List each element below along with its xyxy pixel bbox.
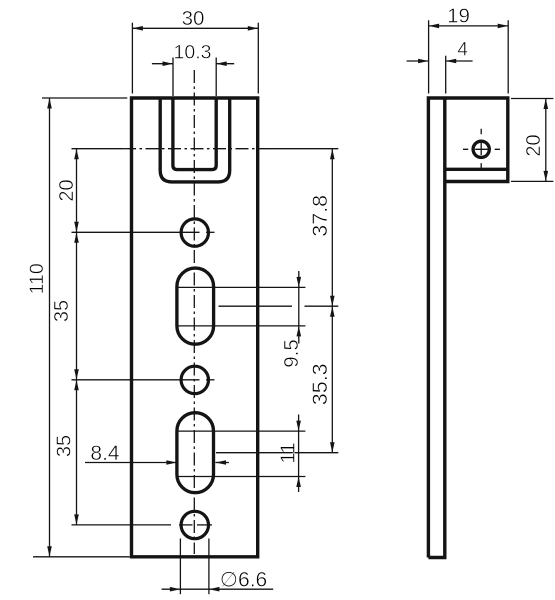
side dimension 20: dimension line (545, 99, 547, 182)
front view: horizontal center line y=148.7 (123, 148, 267, 150)
svg-text:∅6.6: ∅6.6 (220, 569, 268, 592)
dimension 30: dimension line (132, 27, 258, 29)
dimension 19: dimension line (429, 25, 509, 27)
slot bottom center line (216, 452, 338, 454)
dimension 11: dimension line and arrows (298, 415, 300, 493)
svg-text:9.5: 9.5 (280, 339, 303, 368)
front view: hole 2 circle (181, 366, 208, 393)
dimension 9.5: dimension line and arrows (298, 271, 300, 344)
dimension 19: extension lines (428, 20, 430, 93)
dimension 110: extension lines (42, 97, 127, 99)
dimension diameter 6.6: dimension line and arrows (162, 588, 274, 590)
svg-text:8.4: 8.4 (90, 442, 120, 465)
hole 3 center line (72, 524, 172, 526)
svg-text:30: 30 (182, 7, 205, 30)
side view: slot bottom line (445, 168, 508, 171)
svg-text:4: 4 (457, 40, 468, 61)
svg-text:35.3: 35.3 (308, 363, 332, 405)
chain dimensions: dimension line (76, 149, 78, 525)
svg-text:35: 35 (51, 300, 73, 322)
svg-text:35: 35 (54, 435, 76, 457)
slot bottom tangent line upper (177, 430, 306, 432)
slot top tangent line lower (177, 325, 306, 327)
dimension 4: dimension line and arrows (407, 60, 429, 62)
dimension 30: extension lines (131, 23, 133, 94)
svg-text:19: 19 (447, 5, 470, 28)
front view: vertical center line (193, 70, 195, 554)
front view: slot hole bottom (stadium) (177, 413, 214, 493)
hole 1 center line (72, 231, 200, 233)
svg-text:110: 110 (26, 263, 48, 294)
svg-text:20: 20 (56, 179, 78, 201)
side view: outline (428, 98, 507, 558)
svg-text:11: 11 (276, 442, 299, 463)
front view: outer pocket U-slot (160, 98, 230, 182)
slot bottom tangent line lower (177, 476, 306, 478)
dimension 110: dimension line (49, 98, 51, 557)
svg-text:20: 20 (523, 134, 545, 156)
hole 2 center line (72, 379, 200, 381)
svg-text:37.8: 37.8 (308, 195, 332, 237)
slot top tangent line upper (177, 286, 306, 288)
slot top center line (219, 305, 293, 307)
dimension 37.8/35.3: dimension line (331, 149, 333, 453)
dimension 10.3: dimension line and arrows (152, 63, 173, 65)
dimension diameter 6.6: extension lines (179, 539, 181, 595)
svg-text:10.3: 10.3 (174, 42, 212, 64)
side dimension 20: extension lines (511, 98, 553, 100)
side view: hole center lines (463, 148, 500, 150)
front view: slot hole top (stadium) (177, 268, 214, 344)
front view: inner slot 10.3 wide (173, 98, 216, 170)
dimension 8.4: dimension line and arrows (85, 462, 177, 464)
front view: hole 3 circle (181, 511, 208, 538)
front view: plate outline 30x110 (132, 98, 258, 557)
dimension 10.3: extension lines (172, 58, 174, 97)
dimension 4: extension line (445, 56, 447, 94)
front view: hole 1 circle (181, 219, 208, 246)
side view: hole circle (473, 141, 489, 157)
